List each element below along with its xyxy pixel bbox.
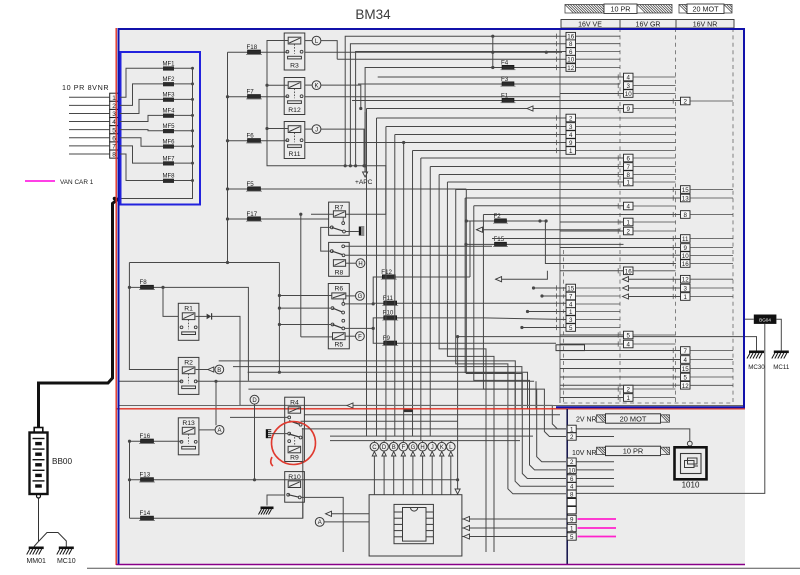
pin 9 col3: [681, 244, 691, 252]
wire to left connector pin 5: [69, 129, 110, 131]
indicator circle A (R13): [215, 426, 224, 435]
net +APC: [364, 112, 366, 172]
wire bundle vertical to ECU zone: [385, 127, 387, 441]
wire into ECU: [450, 456, 452, 495]
pin 4 col1: [566, 131, 576, 139]
fuse F1: [352, 100, 681, 102]
svg-text:F: F: [401, 445, 405, 451]
pin 15 col3: [681, 365, 691, 373]
svg-text:MC10: MC10: [57, 558, 76, 565]
wire lower run: [248, 372, 528, 409]
svg-text:+APC: +APC: [355, 179, 373, 186]
fuse F16: [130, 440, 182, 442]
fuse F10: [373, 318, 484, 329]
svg-text:10 PR: 10 PR: [611, 5, 631, 14]
hatched label 10 PR (bottom): [597, 447, 606, 454]
wire R3 output: [305, 51, 562, 53]
wire R1 coil feed: [163, 287, 178, 316]
wire box to BG04: [745, 318, 754, 320]
wire R8 upper contact: [345, 245, 492, 247]
fuse F11: [373, 302, 478, 304]
svg-text:D: D: [252, 398, 257, 404]
wire BG04 to MC11: [776, 319, 781, 350]
svg-text:15: 15: [567, 286, 574, 293]
wire col1 lower feeder: [542, 295, 566, 297]
svg-text:8: 8: [570, 491, 574, 498]
wire bundle-A run: [430, 166, 623, 168]
wire into ECU: [402, 456, 404, 495]
relay R8 (switch + coil): [329, 242, 350, 276]
svg-text:1: 1: [569, 148, 573, 155]
wire MF2 to pin 2: [118, 84, 163, 105]
pin 15 col3: [681, 186, 691, 194]
svg-text:5: 5: [684, 375, 688, 382]
svg-text:10 PR 8VNR: 10 PR 8VNR: [62, 83, 109, 92]
relay R11: [284, 122, 305, 159]
fuse F18: [228, 51, 288, 53]
wire bundle-A run: [305, 142, 566, 144]
relay R9 switch: [288, 432, 291, 435]
wire left feeder link: [129, 262, 279, 264]
pin 2 col2: [624, 227, 634, 235]
wire bundle run to bottom pin: [465, 198, 566, 486]
svg-text:6: 6: [627, 156, 631, 163]
wire ECU left arrow: [331, 513, 369, 515]
pin 5 col2: [624, 331, 634, 339]
indicator circle D: [250, 395, 259, 404]
svg-text:16V NR: 16V NR: [693, 22, 718, 29]
wire second feeder vertical: [300, 214, 302, 337]
wire to left connector pin 7: [69, 145, 110, 147]
svg-text:1: 1: [684, 294, 688, 301]
svg-text:B: B: [217, 368, 221, 374]
svg-text:BM34: BM34: [355, 7, 391, 22]
svg-text:VAN CAR 1: VAN CAR 1: [60, 179, 94, 186]
wire lower run: [240, 405, 566, 429]
connector header 16V VE / 16V GR / 16V NR: [561, 20, 734, 29]
svg-text:BG04: BG04: [759, 318, 771, 323]
pin 15 col1: [566, 284, 576, 292]
pin 3 col1: [566, 123, 576, 131]
svg-text:H: H: [420, 445, 424, 451]
svg-text:9: 9: [627, 106, 631, 113]
pin 6 col1: [566, 48, 576, 56]
wire with direction arrow: [367, 108, 624, 110]
indicator circle F (R5): [356, 332, 365, 341]
fuse F13: [130, 479, 458, 481]
svg-text:10V NR: 10V NR: [572, 450, 597, 457]
wire into ECU: [393, 456, 395, 495]
wire long vertical to ECU: [457, 337, 459, 489]
wire bundle run to bottom pin: [456, 190, 566, 494]
svg-text:5: 5: [570, 534, 574, 541]
svg-text:K: K: [440, 445, 444, 451]
svg-text:1: 1: [627, 180, 631, 187]
fuse F5: [228, 188, 467, 190]
wire bundle-A run: [447, 181, 623, 183]
wire R2 coil output arrow: [196, 369, 208, 371]
wire with arrow (mid2, col2 pin16 terminus): [496, 271, 548, 279]
wire bundle-A run: [421, 157, 624, 159]
relay R4/R9 assembly box: [285, 397, 305, 461]
svg-text:15: 15: [682, 366, 689, 373]
svg-text:7: 7: [569, 294, 573, 301]
svg-text:BB00: BB00: [52, 457, 72, 466]
svg-text:R10: R10: [288, 474, 301, 481]
svg-text:3: 3: [684, 286, 688, 293]
ground MC30: [749, 351, 764, 354]
svg-text:1: 1: [627, 395, 631, 402]
wire fuse supply bus: [227, 52, 229, 262]
svg-text:7: 7: [684, 348, 688, 355]
splice block: [556, 345, 585, 351]
svg-text:H: H: [358, 262, 362, 268]
bottom pin 4: [567, 483, 576, 490]
svg-text:F: F: [358, 335, 362, 341]
svg-text:20 MOT: 20 MOT: [620, 414, 647, 423]
legend VAN CAR 1 (magenta): [25, 180, 55, 182]
svg-text:12: 12: [682, 277, 689, 284]
relay R1: [178, 303, 199, 340]
wire to left connector pin 6: [69, 137, 110, 139]
wire top pin feeder: [345, 36, 566, 166]
wire R12 output: [305, 96, 560, 98]
fuse F9: [373, 328, 556, 343]
wire MF4 to bus: [174, 114, 193, 116]
horizontal separator (gray): [118, 405, 745, 407]
svg-text:R1: R1: [184, 306, 193, 313]
wire col2 pin 4 long row: [378, 76, 624, 78]
wire battery feed down: [535, 381, 537, 409]
pin 8 col2: [624, 171, 634, 179]
IC chip symbol: [394, 504, 433, 543]
blank pin boxes: [567, 499, 576, 506]
wire to left connector pin 4: [69, 121, 110, 123]
svg-text:10: 10: [625, 91, 632, 98]
wire R7 coil left: [311, 213, 333, 215]
wire MF1 to pin 1: [118, 68, 163, 97]
wire bundle-A run: [439, 174, 623, 176]
svg-text:4: 4: [627, 204, 631, 211]
svg-text:R9: R9: [290, 454, 299, 461]
svg-text:16V GR: 16V GR: [636, 22, 661, 29]
pin 1 col3: [681, 293, 691, 301]
wire col1 lower feeder: [534, 287, 567, 289]
wire col2 feeder: [560, 397, 624, 399]
wire pin 12 feeder to +APC: [365, 68, 566, 172]
pin 10 col1: [566, 55, 576, 63]
wire col2 feeder: [560, 270, 624, 272]
svg-text:12: 12: [682, 383, 689, 390]
pin 12 col1: [566, 64, 576, 72]
inner blue box (left connector zone): [121, 52, 201, 205]
connector strip edge line: [559, 28, 561, 403]
svg-text:4: 4: [627, 342, 631, 349]
relay R12: [284, 78, 305, 115]
tiny label on red line: [404, 410, 413, 413]
svg-text:MM01: MM01: [26, 558, 46, 565]
svg-text:3: 3: [569, 124, 573, 131]
battery BB00: [30, 433, 48, 495]
wire lower run: [233, 367, 522, 409]
red left border line: [115, 28, 117, 565]
connector bar 10 PR (hatched): [565, 5, 604, 14]
component 1010 (actuator): [687, 441, 692, 446]
wire R3 output junction vertical: [492, 36, 494, 67]
wire relay rail: [302, 428, 304, 518]
wire bundle vertical to ECU zone: [420, 158, 422, 441]
wire R10 switch output: [301, 497, 343, 552]
svg-text:2: 2: [570, 459, 574, 466]
wire R10 to earth ground: [267, 495, 285, 506]
pin 2 col2: [624, 385, 634, 393]
connector bar 20 MOT (hatched): [679, 5, 687, 13]
relay R4 switch: [288, 416, 291, 419]
wire bus to R11 coil: [267, 128, 288, 130]
pin 10 col2: [624, 90, 634, 98]
relay R7 (coil + switch): [329, 202, 350, 235]
wire MF6 to pin 6: [118, 138, 163, 146]
wire to ground MC30: [458, 337, 757, 351]
pin 2 col3: [681, 97, 691, 105]
pin 4 col1: [566, 300, 576, 308]
wire bundle-A run: [465, 197, 680, 199]
bottom pin 5: [567, 533, 576, 540]
bottom pin 2: [567, 458, 576, 465]
relay R9 coil: [288, 446, 301, 453]
pin 3 col1: [566, 316, 576, 324]
pin 1 col1: [566, 308, 576, 316]
svg-text:6: 6: [570, 476, 574, 483]
wire bundle run to bottom pin: [439, 175, 486, 553]
fuse F17: [228, 218, 329, 220]
BM34 fuse-box main panel background: [118, 28, 745, 565]
bottom pin 6: [567, 475, 576, 482]
svg-text:10 PR: 10 PR: [623, 447, 644, 456]
wire from D down: [254, 404, 256, 480]
wires R6/R5 inputs from left: [279, 295, 331, 297]
connector symbol (R1 output): [196, 315, 207, 317]
pin 5 col3: [681, 373, 691, 381]
wire col3 with arrow terminus: [628, 287, 683, 289]
wire bundle-A run: [483, 214, 680, 216]
fuse F6: [228, 140, 288, 142]
wire MF1 to bus: [174, 67, 193, 69]
svg-text:8: 8: [569, 41, 573, 48]
svg-text:R5: R5: [334, 342, 343, 349]
wire to left connector pin 1: [69, 96, 110, 98]
svg-text:7: 7: [627, 164, 631, 171]
wire circle J to feed bus: [321, 129, 364, 166]
indicator circle A (ECU side): [315, 518, 324, 527]
wires 10V pins right: [576, 461, 614, 463]
pin separator ticks: [556, 34, 558, 39]
svg-text:16: 16: [625, 268, 632, 275]
bottom pin 2: [567, 433, 576, 440]
wire bottom fuse bus: [129, 441, 131, 518]
wire MF7 to pin 7: [118, 146, 163, 163]
wire col1 lower feeder: [528, 311, 567, 313]
relay R6/R5 block outline: [328, 284, 349, 349]
pin 13 col3: [681, 194, 691, 202]
comb ground (R9): [266, 429, 268, 438]
wire F2 to col3 pin 16: [545, 221, 676, 264]
svg-text:G: G: [358, 294, 363, 300]
wire F10 to pin 3: [484, 318, 566, 320]
battery negative wire to grounds: [38, 498, 40, 542]
fuse F7: [228, 96, 288, 98]
wire into ECU: [431, 456, 433, 495]
pin 3 col2: [624, 82, 634, 90]
svg-text:B: B: [392, 445, 396, 451]
indicator circle B (R2): [215, 365, 224, 374]
svg-text:MC11: MC11: [773, 364, 790, 371]
svg-text:A: A: [217, 428, 221, 434]
wire F5 branch down to F2: [465, 189, 467, 221]
svg-text:9: 9: [684, 245, 688, 252]
wire bundle-A run: [386, 126, 566, 128]
wire bundle vertical to ECU zone: [403, 143, 405, 441]
wire into ECU: [441, 456, 443, 495]
red highlight ellipse around R9: [270, 420, 317, 466]
wire MF6 to bus: [174, 145, 193, 147]
pin 9 col2: [624, 105, 634, 113]
relay R2: [178, 357, 199, 394]
pin 4 col2: [624, 340, 634, 348]
pin 16 col2: [624, 267, 634, 275]
wire MF2 to bus: [174, 83, 193, 85]
wire F8 branch to R2: [129, 263, 178, 370]
wire bundle-A run: [456, 189, 681, 191]
ground MC11: [774, 351, 789, 354]
svg-text:A: A: [318, 520, 322, 526]
svg-text:1: 1: [570, 526, 574, 533]
pin 7 col1: [566, 292, 576, 300]
indicator circle J (R11): [312, 125, 321, 134]
wire pin1 to 1010: [576, 429, 690, 441]
svg-text:10: 10: [568, 467, 575, 474]
pin 1 col1: [566, 147, 576, 155]
wire R5 output junction: [345, 327, 374, 329]
bottom pin 1: [567, 524, 576, 531]
wire col2 feeder: [560, 230, 624, 232]
svg-text:C: C: [372, 445, 377, 451]
svg-text:K: K: [314, 83, 318, 89]
wire col2 feeder: [560, 388, 624, 390]
relay plate BG04: [754, 315, 777, 324]
pin 1 col2: [624, 394, 634, 402]
svg-text:R2: R2: [184, 360, 193, 367]
svg-text:13: 13: [682, 196, 689, 203]
svg-text:20 MOT: 20 MOT: [693, 5, 720, 14]
pin 8 col1: [566, 40, 576, 48]
svg-text:R3: R3: [290, 62, 299, 69]
wire col2 feeder: [560, 93, 624, 95]
svg-text:R4: R4: [290, 400, 299, 407]
red separator line: [116, 408, 745, 410]
wire battery feed through R2 contacts: [119, 380, 182, 382]
ground MC10: [59, 547, 74, 550]
indicator circle G (R6): [356, 292, 365, 301]
wire bundle run to bottom pin: [474, 206, 566, 470]
wire stubs to ECU circles: [373, 441, 375, 443]
magenta wires pins 9,1,5: [578, 518, 617, 520]
pin 4 col2: [624, 202, 634, 210]
indicator circle L (R3): [312, 36, 321, 45]
wire top pin feeder: [350, 44, 566, 166]
wire bus to R12 coil: [267, 84, 288, 86]
bottom pin 10: [567, 466, 576, 473]
svg-text:G: G: [411, 445, 416, 451]
wire bundle run to bottom pin: [483, 215, 566, 462]
col1 row wires: [576, 35, 621, 37]
svg-text:12: 12: [567, 65, 574, 72]
wire MF3 to pin 3: [118, 99, 163, 113]
svg-text:4: 4: [627, 75, 631, 82]
svg-text:2: 2: [627, 229, 631, 236]
pin 16 col3: [681, 260, 691, 268]
pin 2 col1: [566, 114, 576, 122]
wire col1 lower feeder: [522, 327, 566, 329]
pin 4 col3: [681, 356, 691, 364]
svg-text:9: 9: [570, 517, 574, 524]
wire F11 to pin 4: [478, 302, 566, 304]
svg-text:R8: R8: [335, 270, 344, 277]
svg-text:2: 2: [627, 387, 631, 394]
wire MF5 to bus: [174, 130, 193, 132]
pin 11 col3: [681, 235, 691, 243]
ground MM01: [29, 547, 44, 550]
wire R6 output junction: [345, 303, 374, 305]
wire bundle run to bottom pin: [466, 221, 566, 479]
svg-text:R13: R13: [182, 420, 195, 427]
wire lower run: [248, 389, 566, 436]
svg-text:5: 5: [569, 325, 573, 332]
bottom pin 1: [567, 425, 576, 432]
bottom pin 8: [567, 490, 576, 497]
indicator circle K (R12): [312, 81, 321, 90]
main box border (navy): [119, 29, 745, 565]
pin 7 col2: [624, 163, 634, 171]
pin 6 col2: [624, 154, 634, 162]
wire left feeders down: [278, 263, 280, 373]
wire bundle vertical to ECU zone: [429, 167, 431, 437]
wire bundle vertical to ECU zone: [394, 135, 396, 437]
pin 5 col1: [566, 324, 576, 332]
col3 feeder wires: [560, 238, 681, 240]
fuse F12: [373, 277, 470, 304]
wire R7 switch to R8 switch: [321, 227, 331, 251]
svg-text:R11: R11: [289, 151, 301, 158]
wire circle L to pin10 row: [321, 41, 337, 60]
svg-text:8: 8: [684, 212, 688, 219]
left connector pins 1-8: [110, 93, 119, 101]
comb ground (R7): [359, 227, 361, 236]
svg-text:J: J: [315, 127, 318, 133]
svg-text:J: J: [431, 445, 434, 451]
wire into ECU: [422, 456, 424, 495]
purple bottom border: [116, 564, 745, 566]
wire col2 feeder: [560, 334, 624, 336]
wire to left connector pin 8: [69, 153, 110, 155]
wire circle K to arrow row: [321, 85, 361, 108]
svg-text:10: 10: [682, 253, 689, 260]
wire into ECU: [373, 456, 375, 495]
fuse F8: [129, 287, 248, 380]
svg-text:3: 3: [627, 83, 631, 90]
wire bundle vertical to ECU zone: [412, 151, 414, 437]
wire R7 coil right to feed bus: [346, 213, 386, 215]
